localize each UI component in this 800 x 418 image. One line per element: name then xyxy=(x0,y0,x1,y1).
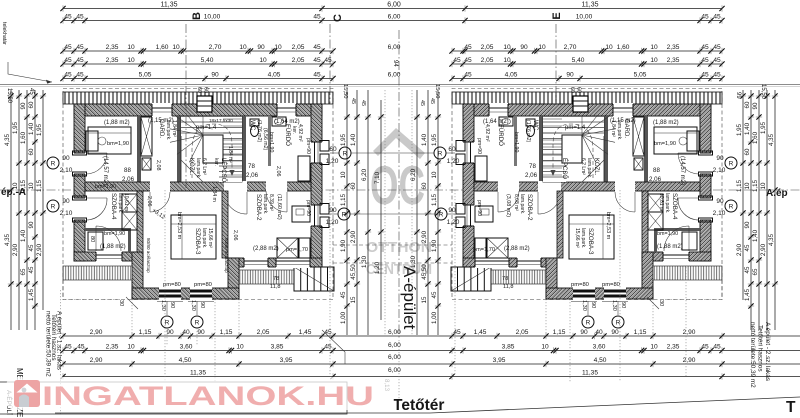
svg-text:FÜRDŐ: FÜRDŐ xyxy=(284,124,291,146)
svg-text:45: 45 xyxy=(313,14,321,21)
svg-text:45: 45 xyxy=(713,57,721,64)
dimension rowD bottom left xyxy=(60,370,335,380)
svg-text:pm=90: pm=90 xyxy=(305,138,311,154)
svg-text:15,50: 15,50 xyxy=(342,84,348,99)
door opening left wall 2 xyxy=(73,198,86,220)
desk szoba2 xyxy=(292,206,310,222)
svg-text:R: R xyxy=(342,212,347,219)
svg-text:90: 90 xyxy=(611,329,619,336)
centre chain R2 xyxy=(421,90,431,335)
svg-text:45: 45 xyxy=(429,98,435,104)
svg-text:2,35: 2,35 xyxy=(106,44,119,51)
svg-text:45: 45 xyxy=(76,72,84,79)
svg-text:3,60: 3,60 xyxy=(593,344,606,351)
svg-text:60: 60 xyxy=(203,87,209,93)
bay protrusion left wall xyxy=(132,252,143,299)
svg-text:2,90: 2,90 xyxy=(760,243,767,256)
svg-text:45: 45 xyxy=(313,72,321,79)
svg-text:45: 45 xyxy=(431,291,438,298)
svg-text:3,60: 3,60 xyxy=(180,344,193,351)
wardrobe szoba4 xyxy=(122,194,137,212)
bay R circles left building xyxy=(161,316,173,328)
svg-text:4,50: 4,50 xyxy=(179,357,192,364)
svg-text:45: 45 xyxy=(313,44,321,51)
svg-text:90: 90 xyxy=(716,155,724,162)
svg-text:4,05: 4,05 xyxy=(268,72,281,79)
svg-text:1,15: 1,15 xyxy=(220,329,233,336)
partition room1-shaft xyxy=(137,116,141,182)
svg-text:SZOBA-2: SZOBA-2 xyxy=(526,194,533,221)
exterior stair right xyxy=(294,267,334,291)
closet small room xyxy=(88,232,103,250)
svg-text:78: 78 xyxy=(273,276,279,282)
dimension row1 top xyxy=(60,2,724,12)
watermark ingatlanok icon xyxy=(14,380,40,407)
svg-text:1,40: 1,40 xyxy=(350,133,357,146)
svg-text:90: 90 xyxy=(197,329,205,336)
svg-text:GARD.: GARD. xyxy=(623,119,629,138)
svg-text:45: 45 xyxy=(701,344,709,351)
svg-text:60: 60 xyxy=(744,101,751,108)
svg-text:90: 90 xyxy=(62,155,70,162)
door opening mid wall 2 xyxy=(224,181,247,192)
svg-text:10: 10 xyxy=(503,44,511,51)
bay R circles right building xyxy=(582,316,594,328)
svg-text:10: 10 xyxy=(274,44,282,51)
svg-text:90: 90 xyxy=(166,329,174,336)
wall left xyxy=(74,104,85,261)
dimension row4 top left xyxy=(60,57,335,67)
wall top xyxy=(74,104,322,116)
svg-text:2,06: 2,06 xyxy=(246,172,259,179)
svg-text:45,50: 45,50 xyxy=(350,264,357,280)
eaves hatch band top xyxy=(63,92,333,104)
svg-text:2,10: 2,10 xyxy=(713,210,726,217)
svg-text:1,40: 1,40 xyxy=(20,229,27,242)
svg-text:1,30: 1,30 xyxy=(581,300,587,311)
svg-text:2,90: 2,90 xyxy=(350,230,357,243)
door arc left wall 2 xyxy=(86,198,107,220)
svg-text:60: 60 xyxy=(196,87,202,93)
svg-text:2,05: 2,05 xyxy=(257,329,270,336)
door arc mid wall 1 xyxy=(150,192,170,212)
svg-text:1,15: 1,15 xyxy=(36,179,43,192)
svg-text:bm=2,53 m: bm=2,53 m xyxy=(605,212,611,240)
svg-text:(3,08 m2): (3,08 m2) xyxy=(505,194,511,217)
desk room1 xyxy=(86,131,98,151)
svg-text:1,84 m: 1,84 m xyxy=(211,186,217,202)
svg-text:15,50: 15,50 xyxy=(434,84,440,99)
svg-text:ÉPCSŐ: ÉPCSŐ xyxy=(561,158,568,179)
svg-text:5,40: 5,40 xyxy=(201,57,214,64)
staircase xyxy=(170,116,242,182)
svg-text:R: R xyxy=(729,204,734,211)
svg-text:90: 90 xyxy=(620,302,626,308)
svg-text:1,15: 1,15 xyxy=(431,193,438,206)
svg-text:60: 60 xyxy=(448,146,456,153)
svg-text:1,20: 1,20 xyxy=(374,261,381,274)
svg-text:90: 90 xyxy=(744,221,751,228)
svg-text:(1,88 m2): (1,88 m2) xyxy=(653,120,679,126)
svg-text:bm=1,90: bm=1,90 xyxy=(268,132,274,152)
dimension rowC bottom left xyxy=(60,357,335,367)
dimension rowD bottom right xyxy=(449,370,724,380)
dimension row4 top right xyxy=(449,57,724,67)
closet room1 top-left xyxy=(88,127,131,154)
centre split dash-dot line xyxy=(398,30,400,340)
svg-text:lam.park.: lam.park. xyxy=(262,194,268,215)
svg-text:45: 45 xyxy=(360,100,366,106)
svg-text:pm=1,4: pm=1,4 xyxy=(565,125,586,131)
svg-text:78: 78 xyxy=(502,276,508,282)
chimney shaft with X xyxy=(141,117,152,156)
dimension rowA bottom right xyxy=(449,329,724,339)
svg-text:2,05: 2,05 xyxy=(516,329,529,336)
section line A-A horizontal xyxy=(0,189,800,191)
svg-text:A épület - 2.sz. lakás: A épület - 2.sz. lakás xyxy=(764,322,771,381)
svg-text:4,35: 4,35 xyxy=(768,133,775,146)
svg-text:6,00: 6,00 xyxy=(387,2,401,9)
right edge chain 1 xyxy=(768,90,778,330)
svg-text:FÜRDŐ: FÜRDŐ xyxy=(497,124,504,146)
svg-text:1,00: 1,00 xyxy=(340,311,347,324)
svg-text:90: 90 xyxy=(716,198,724,205)
window right wall xyxy=(310,205,323,226)
svg-text:1,20: 1,20 xyxy=(326,219,339,226)
svg-text:1,15: 1,15 xyxy=(139,329,152,336)
svg-text:pm=90: pm=90 xyxy=(305,200,311,216)
bathroom tub xyxy=(298,156,310,181)
svg-text:2,10: 2,10 xyxy=(60,167,73,174)
svg-text:45: 45 xyxy=(350,98,356,104)
svg-text:1,95: 1,95 xyxy=(760,121,767,134)
svg-text:5,05: 5,05 xyxy=(139,72,152,79)
centre chain L3 xyxy=(361,90,371,335)
centre dashed roof edges xyxy=(384,90,386,335)
centre chain L1 xyxy=(340,90,350,335)
svg-text:90: 90 xyxy=(566,72,574,79)
svg-text:10,00: 10,00 xyxy=(576,14,593,21)
svg-text:80: 80 xyxy=(89,236,95,242)
svg-text:pm=1,70: pm=1,70 xyxy=(473,247,495,253)
svg-text:30: 30 xyxy=(118,300,124,306)
svg-text:6,20: 6,20 xyxy=(361,168,368,181)
terrace deck left xyxy=(63,266,132,280)
svg-text:88: 88 xyxy=(124,167,131,174)
svg-text:45: 45 xyxy=(324,57,332,64)
svg-text:4,35: 4,35 xyxy=(768,233,775,246)
dimension rowA bottom left xyxy=(60,329,335,339)
svg-text:90: 90 xyxy=(211,72,219,79)
svg-text:60: 60 xyxy=(569,87,575,93)
svg-text:SZOBA-4: SZOBA-4 xyxy=(110,193,117,220)
svg-text:2,70: 2,70 xyxy=(209,44,222,51)
svg-text:KÖZL.: KÖZL. xyxy=(188,158,195,176)
svg-text:60: 60 xyxy=(576,87,582,93)
svg-text:10: 10 xyxy=(760,182,767,189)
svg-text:45: 45 xyxy=(464,44,472,51)
svg-text:1,60: 1,60 xyxy=(617,44,630,51)
svg-text:(1,76 m2): (1,76 m2) xyxy=(525,120,531,142)
svg-text:10: 10 xyxy=(503,57,511,64)
svg-text:C: C xyxy=(332,14,344,22)
svg-text:2,35: 2,35 xyxy=(667,57,680,64)
svg-text:pm=80: pm=80 xyxy=(194,282,212,288)
property line telekhatar xyxy=(0,84,800,86)
svg-text:B: B xyxy=(191,12,203,20)
cabinet szoba2 right xyxy=(299,238,310,258)
svg-text:(2,88 m2): (2,88 m2) xyxy=(504,246,530,252)
svg-text:1,20: 1,20 xyxy=(447,219,460,226)
svg-text:45: 45 xyxy=(744,266,751,273)
svg-text:bm=1,90: bm=1,90 xyxy=(95,184,116,190)
svg-text:1,15: 1,15 xyxy=(634,329,647,336)
svg-text:45: 45 xyxy=(76,44,84,51)
svg-text:10: 10 xyxy=(541,344,549,351)
svg-text:11,35: 11,35 xyxy=(190,370,206,377)
svg-text:1,60: 1,60 xyxy=(20,131,27,144)
svg-text:4,05: 4,05 xyxy=(505,72,518,79)
wall right xyxy=(311,104,322,267)
svg-text:6,20: 6,20 xyxy=(410,168,417,181)
svg-text:10: 10 xyxy=(239,44,247,51)
right edge chain 2 xyxy=(760,90,770,330)
svg-text:45: 45 xyxy=(453,329,461,336)
svg-text:1,45: 1,45 xyxy=(744,288,751,301)
wall bottom right section xyxy=(228,258,322,267)
svg-text:bm=1,90: bm=1,90 xyxy=(654,141,676,147)
svg-text:Tetőtéri hasznos: Tetőtéri hasznos xyxy=(757,325,764,372)
window top wall xyxy=(152,103,172,117)
dimension row extension lines right xyxy=(722,335,800,337)
svg-text:5,40: 5,40 xyxy=(572,57,585,64)
partition szoba4-szoba3 xyxy=(137,191,143,252)
svg-text:R: R xyxy=(438,151,443,158)
svg-text:10,81 m²: 10,81 m² xyxy=(658,193,664,213)
svg-text:2,06: 2,06 xyxy=(275,166,281,177)
window bay bottom pm80 xyxy=(190,287,212,300)
svg-text:1,15: 1,15 xyxy=(736,179,743,192)
svg-text:45: 45 xyxy=(28,244,35,251)
svg-text:45: 45 xyxy=(713,72,721,79)
svg-text:pm=1,4: pm=1,4 xyxy=(196,125,217,131)
window bay bottom pm80 xyxy=(159,287,181,300)
svg-text:1,84 m²: 1,84 m² xyxy=(227,146,233,163)
svg-text:WC: WC xyxy=(532,120,539,131)
table frame lines bottom xyxy=(0,382,347,414)
window bottom-left wall terrace door xyxy=(96,251,122,262)
svg-text:45: 45 xyxy=(744,244,751,251)
svg-text:10: 10 xyxy=(127,57,135,64)
svg-text:(1,88 m2): (1,88 m2) xyxy=(104,120,130,126)
svg-text:1,90: 1,90 xyxy=(340,239,347,252)
svg-text:60: 60 xyxy=(329,146,337,153)
partition gard right xyxy=(177,116,181,182)
svg-text:8,39 m²: 8,39 m² xyxy=(268,194,274,211)
svg-text:1,30: 1,30 xyxy=(190,300,196,311)
chimney block on top wall xyxy=(197,96,212,112)
svg-text:45: 45 xyxy=(64,72,72,79)
left R circle 1 xyxy=(47,157,59,169)
centre chain R3 xyxy=(410,90,420,335)
svg-text:2,10: 2,10 xyxy=(60,210,73,217)
right R circle 1 xyxy=(725,157,737,169)
svg-text:2,90: 2,90 xyxy=(683,329,696,336)
svg-text:90: 90 xyxy=(580,329,588,336)
svg-text:R: R xyxy=(729,161,734,168)
centre chain L2 xyxy=(350,90,360,335)
svg-text:(14,57 m2): (14,57 m2) xyxy=(102,156,108,185)
svg-text:45: 45 xyxy=(464,72,472,79)
svg-text:nettó területe:50,39 m2: nettó területe:50,39 m2 xyxy=(45,311,52,377)
svg-text:45: 45 xyxy=(419,100,425,106)
partition wc-furdo xyxy=(268,116,271,166)
svg-text:R: R xyxy=(195,320,200,327)
svg-text:45: 45 xyxy=(76,14,84,21)
svg-text:10: 10 xyxy=(650,57,658,64)
svg-text:2,05: 2,05 xyxy=(481,57,494,64)
vertical dotted extensions bottom xyxy=(166,328,168,345)
svg-text:45: 45 xyxy=(324,329,332,336)
svg-text:pm=80: pm=80 xyxy=(163,282,181,288)
door opening left wall 1 xyxy=(73,153,86,174)
left edge chain 5 xyxy=(36,90,46,310)
door arc left wall 1 xyxy=(86,153,107,174)
svg-text:1,45: 1,45 xyxy=(28,288,35,301)
svg-text:2,90: 2,90 xyxy=(36,243,43,256)
svg-text:bm=2,53 m: bm=2,53 m xyxy=(176,212,182,240)
svg-text:1,15: 1,15 xyxy=(553,329,566,336)
svg-text:pm=1,70: pm=1,70 xyxy=(286,247,308,253)
svg-text:90: 90 xyxy=(329,207,337,214)
leader line 45 right of left building xyxy=(322,330,345,364)
svg-text:1,40: 1,40 xyxy=(28,122,35,135)
dimension row3 top left xyxy=(60,44,335,54)
svg-text:11,35: 11,35 xyxy=(582,2,599,9)
svg-text:10: 10 xyxy=(538,44,546,51)
left edge chain 3 xyxy=(20,90,30,330)
svg-text:11,8: 11,8 xyxy=(503,284,513,290)
svg-text:10: 10 xyxy=(172,44,180,51)
svg-text:GARD.: GARD. xyxy=(158,119,164,138)
svg-text:88: 88 xyxy=(653,167,660,174)
svg-text:1,40: 1,40 xyxy=(421,133,428,146)
svg-text:45: 45 xyxy=(313,57,321,64)
dimension rowB bottom left xyxy=(60,344,335,354)
dimension rowC bottom right xyxy=(449,357,724,367)
svg-text:15: 15 xyxy=(350,296,357,303)
centre R circles lower xyxy=(338,208,350,220)
svg-text:WC: WC xyxy=(249,120,256,131)
bed szoba3 xyxy=(171,215,216,259)
centre chain R1 xyxy=(431,90,441,335)
svg-text:99: 99 xyxy=(735,92,741,99)
door arc mid wall 2 xyxy=(224,191,247,214)
svg-text:bm=1,90: bm=1,90 xyxy=(513,132,519,152)
svg-text:4,50: 4,50 xyxy=(594,357,607,364)
svg-text:1,84 m²: 1,84 m² xyxy=(610,120,616,137)
svg-text:pm=90: pm=90 xyxy=(476,138,482,154)
left edge chain 4 xyxy=(28,90,38,330)
terrace deck right xyxy=(239,270,294,284)
svg-text:5,05: 5,05 xyxy=(634,72,647,79)
svg-text:6,00: 6,00 xyxy=(388,14,401,21)
svg-text:1,00: 1,00 xyxy=(431,311,438,324)
bay R connector stubs xyxy=(166,301,168,315)
svg-text:,45: ,45 xyxy=(75,344,84,351)
svg-text:45: 45 xyxy=(713,344,721,351)
right edge chain 3 xyxy=(752,90,762,330)
svg-text:2,90: 2,90 xyxy=(90,357,103,364)
svg-text:nettó területe:50,39 m2: nettó területe:50,39 m2 xyxy=(749,322,756,388)
svg-text:3,85: 3,85 xyxy=(271,344,284,351)
svg-text:90: 90 xyxy=(520,44,528,51)
svg-text:45: 45 xyxy=(64,344,72,351)
stair enclosure wall xyxy=(242,116,246,182)
svg-text:45: 45 xyxy=(701,44,709,51)
door opening mid wall 3 xyxy=(266,181,287,192)
bathroom sink xyxy=(272,117,286,126)
svg-text:65: 65 xyxy=(752,268,759,275)
svg-text:15,50: 15,50 xyxy=(6,88,12,104)
svg-text:3,85: 3,85 xyxy=(502,344,515,351)
window bottom-right wall 1 xyxy=(244,257,268,268)
svg-text:45: 45 xyxy=(28,266,35,273)
svg-text:1,15: 1,15 xyxy=(752,179,759,192)
centre R circles upper xyxy=(339,147,351,159)
bay protrusion bottom wall xyxy=(132,288,239,299)
svg-text:1,84 m²: 1,84 m² xyxy=(171,120,177,137)
svg-text:1,95: 1,95 xyxy=(12,121,19,134)
svg-text:10: 10 xyxy=(28,182,35,189)
svg-text:(1,88 m2): (1,88 m2) xyxy=(657,244,683,250)
svg-text:6,2 Lm²: 6,2 Lm² xyxy=(201,158,207,175)
left edge chain 1 xyxy=(4,90,14,330)
svg-text:(2,88 m2): (2,88 m2) xyxy=(253,246,279,252)
svg-text:telekhatár: telekhatár xyxy=(1,22,7,45)
centre chain L4 xyxy=(374,100,384,320)
svg-text:40: 40 xyxy=(595,329,603,336)
svg-text:A-épület: A-épület xyxy=(400,266,419,330)
svg-text:KÖZL.: KÖZL. xyxy=(593,158,600,176)
svg-text:2,10: 2,10 xyxy=(713,167,726,174)
svg-text:R: R xyxy=(165,320,170,327)
svg-text:pm=80: pm=80 xyxy=(571,282,589,288)
svg-text:1,95: 1,95 xyxy=(736,123,743,136)
svg-text:45: 45 xyxy=(713,14,721,21)
svg-text:60: 60 xyxy=(421,182,428,189)
svg-text:2,05: 2,05 xyxy=(292,44,305,51)
svg-text:90: 90 xyxy=(169,302,175,308)
window bottom-right wall 2 xyxy=(276,257,310,268)
partition szoba3-szoba2 xyxy=(222,191,228,258)
svg-text:11,35: 11,35 xyxy=(582,370,598,377)
svg-text:2,05: 2,05 xyxy=(481,44,494,51)
svg-text:1,30: 1,30 xyxy=(361,255,368,268)
svg-text:80/80 acélasztop: 80/80 acélasztop xyxy=(146,238,151,273)
svg-text:45: 45 xyxy=(701,14,709,21)
dimension row2 top xyxy=(60,14,724,24)
svg-text:2,70: 2,70 xyxy=(564,44,577,51)
svg-text:2,90: 2,90 xyxy=(90,329,103,336)
svg-text:1,45: 1,45 xyxy=(299,329,312,336)
dashed lines below bay xyxy=(131,299,133,334)
bay protrusion right wall xyxy=(228,258,239,299)
svg-text:11,8: 11,8 xyxy=(270,284,280,290)
svg-text:3,95: 3,95 xyxy=(280,357,293,364)
dimension row5 top left xyxy=(60,72,335,82)
dimension row5 top right xyxy=(388,72,725,82)
